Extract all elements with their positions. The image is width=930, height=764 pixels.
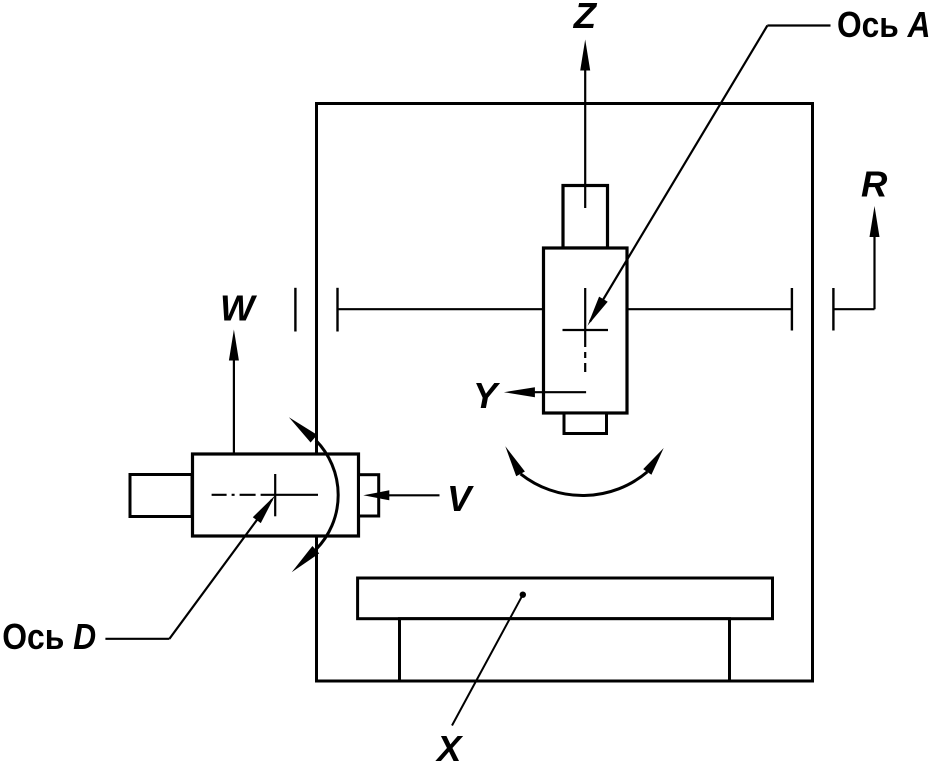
spindle head body [544, 248, 628, 413]
pivot centerline left break tick outer [294, 288, 296, 332]
horizontal spindle shaft block [130, 475, 192, 517]
W axis arrowhead [229, 330, 239, 361]
W axis stem [233, 360, 235, 493]
spindle A center vertical centerline [584, 288, 586, 372]
rotation arc D top arrowhead [289, 417, 317, 442]
svg-text:Ось D: Ось D [2, 616, 96, 657]
spindle D center cross vertical [274, 474, 276, 516]
svg-text:V: V [447, 478, 474, 519]
svg-text:X: X [435, 728, 464, 764]
rotation arc A right arrowhead [643, 448, 664, 475]
svg-text:R: R [861, 164, 888, 205]
spindle head bottom block [564, 413, 607, 434]
R axis horizontal segment [833, 308, 874, 310]
rotation arc A left arrowhead [505, 446, 525, 476]
R axis vertical stem [873, 236, 875, 309]
leader line to axis D: horizontal segment [105, 638, 169, 640]
V axis line [388, 494, 440, 496]
svg-text:W: W [220, 288, 258, 329]
spindle D center horizontal centerline [212, 494, 318, 496]
leader line to axis A: diagonal segment [590, 26, 767, 322]
leader line to axis D: diagonal segment [169, 500, 272, 639]
table top plate [358, 578, 773, 619]
spindle head top block [563, 186, 608, 249]
pivot centerline right break tick outer [832, 288, 834, 331]
svg-text:Y: Y [473, 375, 501, 416]
R axis arrowhead [870, 206, 880, 237]
pivot centerline left break tick inner [336, 288, 338, 332]
Y axis line [534, 391, 586, 393]
X leader line [452, 595, 523, 726]
V axis arrowhead [363, 490, 389, 500]
Z axis stem [584, 70, 586, 208]
leader line to axis A: arrowhead [588, 297, 608, 326]
pivot centerline left segment [338, 308, 544, 310]
pivot centerline right break tick inner [791, 288, 793, 331]
leader line to axis D: arrowhead [253, 495, 275, 523]
rotation arc around axis D [316, 440, 338, 549]
svg-text:Z: Z [573, 0, 598, 36]
leader line to axis A: horizontal segment [767, 24, 830, 26]
svg-text:Ось A: Ось A [837, 4, 930, 45]
horizontal spindle body [193, 454, 359, 536]
pivot centerline right segment [627, 308, 792, 310]
Z axis arrowhead [580, 40, 590, 71]
rotation arc around axis A [521, 472, 648, 496]
horizontal spindle nose block [359, 475, 379, 516]
Y axis arrowhead [504, 387, 535, 397]
machine body rectangle [317, 104, 813, 682]
spindle A center cross horizontal [563, 329, 609, 331]
rotation arc D bottom arrowhead [292, 546, 320, 572]
X leader dot [520, 592, 526, 598]
table base [400, 619, 730, 681]
